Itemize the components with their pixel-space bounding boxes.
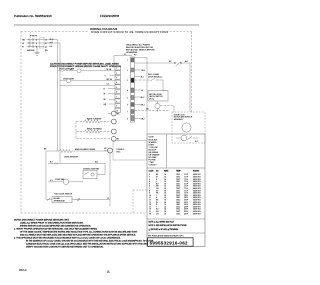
svg-text:P2: P2 xyxy=(134,55,136,57)
svg-text:6: 6 xyxy=(127,104,128,106)
svg-text:8: 8 xyxy=(116,101,117,103)
wire chart rows xyxy=(149,174,201,215)
diagram dashed border bottom xyxy=(21,212,147,214)
svg-text:14: 14 xyxy=(164,213,166,215)
indicator lamp 3 xyxy=(111,129,116,134)
svg-text:1: 1 xyxy=(127,60,128,62)
wire row 3 xyxy=(60,84,115,86)
header rule xyxy=(14,24,199,26)
door lock motor xyxy=(182,123,191,132)
terminal drop wire xyxy=(45,47,47,53)
svg-text:LABEL ALL WIRES PRIOR TO DISCO: LABEL ALL WIRES PRIOR TO DISCONNECTION W… xyxy=(20,222,84,225)
terminal bracket xyxy=(40,38,45,48)
svg-text:OR-2: OR-2 xyxy=(141,118,145,120)
sensor probe marks xyxy=(54,162,56,164)
svg-text:W 1A: W 1A xyxy=(107,68,112,71)
svg-text:VERIFY GROUND PATH CONTINUITY: VERIFY GROUND PATH CONTINUITY BEFORE RET… xyxy=(26,246,104,249)
indicator lamp 4 xyxy=(111,136,116,141)
svg-text:2: 2 xyxy=(127,70,128,72)
door latch switch box xyxy=(148,91,168,102)
bus N vertical xyxy=(59,43,61,164)
svg-text:5: 5 xyxy=(127,97,128,99)
svg-text:600V SR1: 600V SR1 xyxy=(193,213,201,215)
bake element coil xyxy=(84,120,100,123)
relay board box xyxy=(113,141,147,161)
terminal connector marks xyxy=(28,39,52,47)
svg-text:5: 5 xyxy=(116,87,117,89)
wire drop to latch box xyxy=(162,80,164,92)
svg-text:5: 5 xyxy=(36,43,37,45)
svg-text:V VIOLET: V VIOLET xyxy=(149,164,158,166)
connector pin stub wire xyxy=(108,88,115,90)
svg-text:CAUTION: DISCONNECT POWER BEFO: CAUTION: DISCONNECT POWER BEFORE SERVICI… xyxy=(50,62,119,65)
wire to connector P1 row 1 xyxy=(66,70,77,72)
vertical tie right xyxy=(104,164,106,175)
diagram dashed border left xyxy=(20,32,22,214)
svg-text:Publication No. 5995532916: Publication No. 5995532916 xyxy=(14,14,52,18)
wire oven light row 2 xyxy=(60,80,66,82)
svg-text:482F: 482F xyxy=(184,213,188,215)
svg-text:CONVECTION FAN: CONVECTION FAN xyxy=(83,167,100,170)
motor door latch xyxy=(155,103,160,108)
connector P2 strip outline xyxy=(131,57,135,122)
wire ground drop xyxy=(36,47,38,53)
broil element coil lower xyxy=(59,149,72,152)
svg-text:△ GROUND ⌀ SPLICE ◎ TERMINAL: △ GROUND ⌀ SPLICE ◎ TERMINAL xyxy=(149,228,179,231)
connector P2 stub wires xyxy=(135,70,142,119)
svg-text:4: 4 xyxy=(36,39,37,41)
convection relay box xyxy=(83,171,97,179)
diagram dashed border right xyxy=(191,32,193,113)
svg-text:RATING: RATING xyxy=(193,169,200,172)
svg-text:3: 3 xyxy=(116,78,117,80)
legend divider vertical xyxy=(166,134,168,168)
wire relay row xyxy=(135,62,175,64)
svg-text:7: 7 xyxy=(127,111,128,113)
svg-text:L2: L2 xyxy=(107,198,109,200)
connector P2 pin labels xyxy=(127,60,128,121)
connector P1 pin numbers xyxy=(116,68,118,112)
svg-text:OVEN SENSOR: OVEN SENSOR xyxy=(64,157,79,159)
terminal right labels xyxy=(27,39,53,52)
wire element tie xyxy=(75,122,77,139)
svg-text:2: 2 xyxy=(116,73,117,75)
svg-text:W-1: W-1 xyxy=(141,76,144,78)
legend divider above notes xyxy=(147,218,205,220)
svg-text:1-2: 1-2 xyxy=(107,84,110,86)
diagram dashed border top-left segment xyxy=(21,31,89,33)
svg-text:TOD DOOR SWITCH: TOD DOOR SWITCH xyxy=(54,193,73,195)
dashed corner lower oven xyxy=(133,189,147,191)
wire latch to enclosure xyxy=(160,105,174,107)
wire sensor row xyxy=(48,163,105,165)
svg-text:R-8: R-8 xyxy=(50,46,53,48)
connector P1 pin boxes xyxy=(115,66,121,112)
svg-text:9: 9 xyxy=(116,106,117,108)
wire bake element xyxy=(76,121,84,123)
svg-text:2. THIS APPLIANCE MUST BE GRO: 2. THIS APPLIANCE MUST BE GROUNDED IN AC… xyxy=(14,237,121,240)
legend divider horizontal xyxy=(147,167,205,169)
indicator lamp 2 xyxy=(111,119,116,124)
publication id box xyxy=(148,238,194,246)
ground xyxy=(35,51,40,53)
connector pin stub wires extra xyxy=(109,75,115,77)
svg-text:A-4: A-4 xyxy=(185,60,188,63)
diagram dashed border top-right segment xyxy=(156,31,192,33)
svg-text:OF THE SAME GAUGE, TEMPERATURE: OF THE SAME GAUGE, TEMPERATURE RATING AN… xyxy=(20,231,138,234)
svg-text:FFEW3025PB: FFEW3025PB xyxy=(100,14,119,18)
wire bottom row xyxy=(46,199,52,201)
svg-text:CODE: CODE xyxy=(149,137,155,139)
svg-text:R-2: R-2 xyxy=(50,162,53,164)
svg-text:CODE: CODE xyxy=(149,170,155,172)
wire oven light row 1 xyxy=(58,70,62,72)
convection fan motor xyxy=(63,179,68,184)
indicator lamp 5 xyxy=(108,148,113,153)
svg-text:3: 3 xyxy=(127,80,128,82)
svg-text:OPERATING.: OPERATING. xyxy=(126,51,138,54)
svg-text:10: 10 xyxy=(116,110,118,112)
svg-text:05/12: 05/12 xyxy=(19,268,27,272)
svg-text:5995532916-062: 5995532916-062 xyxy=(150,240,188,245)
svg-text:BU-2: BU-2 xyxy=(141,97,145,99)
wire door switch row xyxy=(135,79,150,81)
svg-text:BK-1: BK-1 xyxy=(142,70,146,72)
wire broil row xyxy=(46,150,59,152)
wire N drop to bus xyxy=(50,42,60,44)
lamp oven light 1 xyxy=(77,69,81,73)
legend divider above id xyxy=(147,232,205,234)
thermal cutout box xyxy=(52,196,72,202)
door lock switch xyxy=(181,135,187,141)
switch oven light xyxy=(62,69,67,71)
svg-text:Y-2: Y-2 xyxy=(141,90,144,92)
svg-text:GN-1: GN-1 xyxy=(141,104,145,106)
wire stub xyxy=(29,40,31,48)
lamp oven light 2 xyxy=(66,79,70,83)
svg-text:DOOR SW (N.O.): DOOR SW (N.O.) xyxy=(148,77,163,79)
wire broil element xyxy=(76,131,84,133)
wire strip to enclosure xyxy=(135,110,171,112)
wire connector P1 top xyxy=(113,56,115,67)
svg-text:W: W xyxy=(22,43,24,45)
wire conv fan row xyxy=(48,181,63,183)
legend box xyxy=(147,134,205,247)
svg-text:1: 1 xyxy=(116,68,117,70)
legend color codes xyxy=(149,137,161,167)
switch self clean xyxy=(150,78,155,81)
svg-text:1. VERIFY PROPER OPERATION AF: 1. VERIFY PROPER OPERATION AFTER SERVICI… xyxy=(14,228,97,231)
svg-text:NOTE 2: SEE INSTALLATION INSTR: NOTE 2: SEE INSTALLATION INSTRUCTIONS xyxy=(149,224,188,227)
svg-text:SEE PUBLICATION 5995532916 PAG: SEE PUBLICATION 5995532916 PAGE 8 OF 8 xyxy=(148,234,184,237)
svg-text:NOTES: DISCONNECT POWER BEFORE: NOTES: DISCONNECT POWER BEFORE SERVICING… xyxy=(14,220,70,222)
bus L1 vertical xyxy=(57,40,59,152)
svg-text:NOTE 1: ALL WIRES 600 VOLT: NOTE 1: ALL WIRES 600 VOLT xyxy=(149,221,175,224)
wire L1 drop to bus xyxy=(44,39,58,41)
svg-text:IN THE ABSENCE OF LOCAL CODES,: IN THE ABSENCE OF LOCAL CODES, GROUND IN… xyxy=(26,240,154,243)
svg-text:6: 6 xyxy=(116,92,117,94)
left tie vertical xyxy=(45,151,47,200)
connector P2 pins xyxy=(131,58,134,121)
svg-text:AND ALL PANELS MUST BE REPLACE: AND ALL PANELS MUST BE REPLACED AND SECU… xyxy=(20,234,136,237)
door lock enclosure xyxy=(172,112,205,143)
wire right rail vertical xyxy=(189,63,191,112)
svg-text:THERMOSTAT: THERMOSTAT xyxy=(54,200,65,203)
svg-text:N.C.: N.C. xyxy=(195,141,199,143)
indicator lamp 1 xyxy=(111,111,116,116)
svg-text:P19 P1: P19 P1 xyxy=(30,36,38,38)
svg-text:BK 1B: BK 1B xyxy=(107,79,113,81)
svg-text:W-2: W-2 xyxy=(95,162,98,164)
svg-text:WIRING ERRORS CAN CAUSE IMPROP: WIRING ERRORS CAN CAUSE IMPROPER AND DAN… xyxy=(20,225,91,228)
relay contact DLB xyxy=(174,62,176,64)
broil element coil xyxy=(84,130,100,133)
connector pin stub wire xyxy=(108,93,115,95)
svg-text:(N.O.): (N.O.) xyxy=(149,98,154,100)
bus wire down to legend xyxy=(146,57,148,134)
terminal pin labels xyxy=(36,39,48,52)
svg-text:W: W xyxy=(104,93,106,95)
svg-text:18: 18 xyxy=(149,213,151,215)
svg-text:4: 4 xyxy=(116,82,117,84)
switch bottom xyxy=(47,198,51,201)
wire from box right xyxy=(97,174,105,176)
wire relay to right rail xyxy=(182,62,190,64)
svg-text:ASSEMBLY: ASSEMBLY xyxy=(174,118,184,121)
svg-text:CANADIAN ELECTRICAL CODE CSA C: CANADIAN ELECTRICAL CODE CSA C22.1 AS AP… xyxy=(26,243,149,246)
svg-text:V-1: V-1 xyxy=(50,180,53,182)
splice node xyxy=(77,198,80,201)
svg-text:GROUND: GROUND xyxy=(27,50,35,52)
wire entry drop from border xyxy=(30,32,32,38)
svg-text:7: 7 xyxy=(116,96,117,98)
svg-text:BAKE ELEMENT 2605W: BAKE ELEMENT 2605W xyxy=(75,148,95,151)
svg-text:8: 8 xyxy=(127,118,128,120)
svg-text:4: 4 xyxy=(127,90,128,92)
